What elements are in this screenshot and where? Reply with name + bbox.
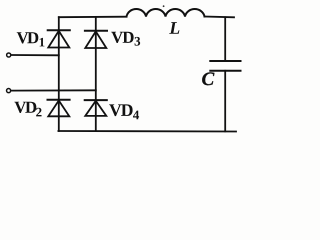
diode VD2 [48, 100, 70, 117]
wire right bridge branch [95, 17, 97, 131]
wire capacitor branch lower [224, 71, 226, 132]
label VD1 [17, 32, 45, 46]
diode VD4 [85, 100, 107, 116]
wire top right from inductor to corner [205, 16, 235, 19]
wire lower input [11, 89, 96, 91]
wire top rail [59, 16, 127, 19]
scan speck above inductor [163, 5, 165, 7]
wire bottom rail [58, 130, 236, 133]
wire capacitor branch upper [224, 17, 226, 61]
label VD3 [111, 32, 140, 46]
diode VD3 [85, 31, 107, 48]
wire left bridge branch [58, 17, 60, 131]
label VD4 [109, 104, 139, 119]
terminal upper input [7, 53, 11, 57]
capacitor C plates [210, 61, 240, 71]
wire upper input [11, 54, 58, 56]
inductor L [127, 9, 205, 16]
label L [169, 22, 179, 34]
label C [202, 72, 214, 85]
terminal lower input [7, 89, 11, 93]
diode VD1 [48, 30, 70, 47]
label VD2 [14, 102, 41, 117]
